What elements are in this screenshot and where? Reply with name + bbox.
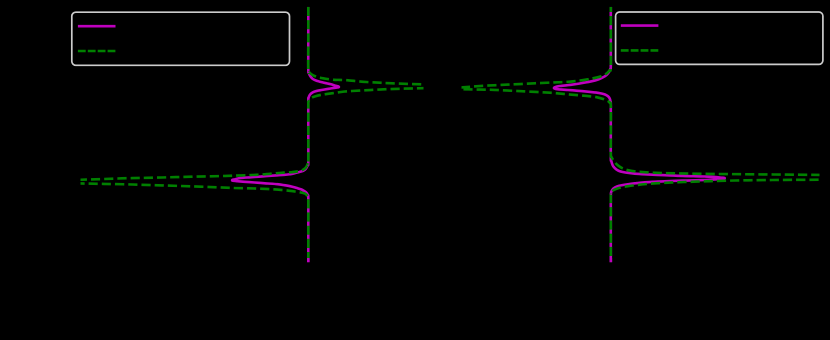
right subplot curves [447,7,830,262]
left vertical: exposed magenta at bottom tip [307,258,310,262]
right vertical: exposed magenta at bottom tip [609,258,612,262]
green dashed curve (left subplot) [55,7,452,262]
legend left: green dashed sample [78,50,116,53]
left subplot curves [55,7,452,262]
magenta solid curve (left subplot): vertical asymptote with horns [232,7,339,262]
legend right: magenta line sample [621,24,659,27]
green dashed curve (right subplot) [447,7,830,262]
legend right: green dashed sample [621,49,659,52]
legend box left [72,12,290,65]
legend box right [616,12,823,64]
legend left: magenta line sample [78,25,116,28]
magenta solid curve (right subplot): vertical asymptote with horns [554,7,725,262]
